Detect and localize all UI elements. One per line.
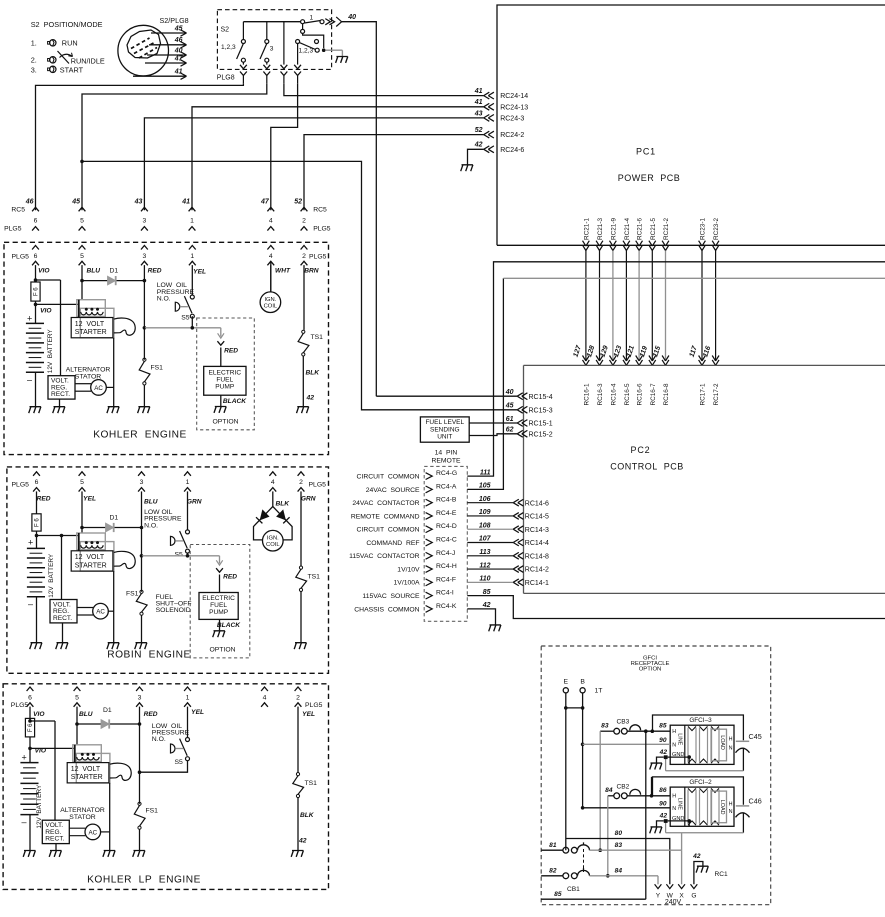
- svg-text:D1: D1: [110, 515, 119, 522]
- svg-text:RC4-J: RC4-J: [436, 550, 455, 557]
- svg-text:RC4-H: RC4-H: [436, 563, 457, 570]
- svg-text:42: 42: [659, 749, 668, 756]
- svg-text:2: 2: [302, 253, 306, 260]
- svg-text:RC4-I: RC4-I: [436, 590, 454, 597]
- wire 62 to RC15-2: [469, 434, 517, 436]
- key icon START: [48, 66, 56, 72]
- Kohler wire color labels: [38, 268, 319, 276]
- svg-text:84: 84: [615, 868, 623, 875]
- pin RC4-K wire 42 (CHASSIS&#160;&#160;COMMON): [354, 602, 490, 613]
- pin RC4-G wire 111 (CIRCUIT&#160;&#160;COMMON): [357, 469, 491, 480]
- svg-text:PC2: PC2: [631, 445, 651, 455]
- wire 47 from connector: [145, 55, 187, 66]
- LP PLG5 pin 6: [27, 687, 34, 721]
- Kohler PLG5 pin 4: [267, 246, 274, 293]
- svg-text:F 6: F 6: [34, 287, 40, 296]
- svg-text:RC1: RC1: [715, 871, 729, 878]
- svg-text:107: 107: [479, 536, 492, 543]
- svg-text:PLG8: PLG8: [217, 75, 235, 82]
- svg-text:RC4-K: RC4-K: [436, 603, 457, 610]
- Robin PLG5 labels: [12, 481, 327, 488]
- svg-text:84: 84: [605, 787, 613, 794]
- svg-text:240V: 240V: [665, 899, 682, 906]
- wire 113 to RC14-8: [467, 552, 549, 560]
- svg-text:TS1: TS1: [311, 334, 324, 341]
- RC5 pin 2 wire 52: [294, 199, 307, 231]
- svg-text:E: E: [564, 679, 569, 686]
- svg-text:42: 42: [659, 813, 668, 820]
- ALTERNATOR STATOR label: [60, 807, 105, 821]
- svg-text:62: 62: [506, 427, 514, 434]
- Kohler pin5 wire to solenoid: [81, 281, 83, 300]
- svg-text:PLG5: PLG5: [11, 702, 29, 709]
- wire 105 run gray: [503, 277, 885, 279]
- svg-text:5: 5: [75, 694, 79, 701]
- svg-text:RED: RED: [37, 496, 51, 503]
- svg-text:S2 POSITION/MODE: S2 POSITION/MODE: [31, 20, 103, 29]
- svg-text:RC24-2: RC24-2: [500, 132, 524, 139]
- svg-text:108: 108: [479, 522, 491, 529]
- Kohler starter ground wire: [113, 338, 115, 407]
- ground: [53, 407, 65, 413]
- svg-text:RC24-3: RC24-3: [500, 116, 524, 123]
- pin RC15-2: [506, 427, 553, 439]
- wire E column: [564, 693, 568, 850]
- svg-text:PLG5: PLG5: [12, 253, 30, 260]
- svg-text:RED: RED: [148, 268, 162, 275]
- svg-text:RC24-14: RC24-14: [500, 93, 528, 100]
- Robin wire color labels: [37, 496, 316, 508]
- svg-text:GRN: GRN: [301, 496, 316, 503]
- Robin fuel pump feed wire: [140, 554, 238, 593]
- svg-text:6: 6: [28, 694, 32, 701]
- svg-text:N.O.: N.O.: [144, 522, 158, 529]
- S2 pole 1 (1,2,3): [237, 22, 247, 69]
- wire 45 PLG8-B to RC5-5: [82, 83, 267, 210]
- LP pin3 wire to FS1: [138, 724, 142, 804]
- wire B column: [566, 693, 585, 810]
- svg-text:105: 105: [479, 483, 491, 490]
- pressure switch S5 Robin: [171, 530, 190, 559]
- terminal B: [580, 679, 602, 695]
- Robin PLG5 pin 5: [79, 472, 86, 528]
- svg-text:LINE: LINE: [676, 733, 682, 745]
- svg-text:RC24-13: RC24-13: [500, 104, 528, 111]
- svg-text:1.: 1.: [31, 38, 37, 47]
- svg-text:RC16-7: RC16-7: [650, 383, 657, 405]
- GFCI&#8211;3 ground terminal: [650, 749, 691, 770]
- svg-text:45: 45: [71, 199, 80, 206]
- svg-text:113: 113: [479, 549, 490, 556]
- diode D1 Kohler: [80, 268, 146, 286]
- 12 VOLT STARTER box: [71, 318, 113, 338]
- svg-text:GFCI–2: GFCI–2: [689, 779, 712, 786]
- VOLT REG RECT box: [48, 376, 75, 399]
- KOHLER LP ENGINE dashed box: [3, 684, 328, 890]
- svg-text:5: 5: [80, 253, 84, 260]
- Robin PLG5 pin 3: [138, 472, 145, 528]
- ground: [135, 643, 147, 649]
- terminal W: [666, 884, 673, 899]
- circuit breaker CB1 pole 1 wire 81: [541, 842, 589, 853]
- svg-text:B: B: [580, 679, 585, 686]
- svg-text:OPTION: OPTION: [209, 646, 235, 653]
- svg-text:RC14-2: RC14-2: [525, 567, 549, 574]
- svg-text:41: 41: [181, 199, 190, 206]
- svg-text:BLK: BLK: [300, 812, 315, 819]
- circuit breaker CB3 wire 83: [600, 719, 646, 734]
- PLG8 pin: [263, 72, 270, 84]
- pin RC24-3: [474, 110, 525, 122]
- pin RC15-4: [505, 389, 553, 401]
- svg-text:43: 43: [474, 110, 483, 117]
- Kohler fuel pump feed wire: [143, 326, 239, 366]
- pin RC4-I wire 85 (115VAC&#160;&#160;SOURCE): [362, 589, 490, 600]
- svg-text:RC14-5: RC14-5: [525, 514, 549, 521]
- svg-text:6: 6: [34, 218, 38, 225]
- svg-text:PC1: PC1: [636, 147, 656, 157]
- PC1 POWER PCB box: [497, 5, 885, 245]
- ground: [29, 407, 41, 413]
- wire 40 out of S2: [342, 14, 377, 396]
- LP wire color labels: [33, 709, 315, 718]
- svg-text:REMOTE: REMOTE: [431, 458, 461, 465]
- svg-text:83: 83: [615, 842, 623, 849]
- svg-text:40: 40: [347, 14, 356, 21]
- svg-text:LOAD: LOAD: [719, 735, 725, 750]
- svg-text:5: 5: [80, 218, 84, 225]
- fuse F6 Kohler: [31, 280, 40, 301]
- pin RC21-9 / RC16-4 wire 129: [600, 218, 618, 406]
- svg-text:H: H: [672, 794, 676, 800]
- svg-text:VIO: VIO: [33, 711, 45, 718]
- svg-text:RC21-6: RC21-6: [637, 218, 644, 240]
- wire 84 run gray: [590, 868, 659, 885]
- svg-text:6: 6: [35, 479, 39, 486]
- fuse F6 LP: [25, 718, 34, 737]
- svg-text:CB3: CB3: [617, 719, 630, 726]
- solenoid coil: [79, 300, 103, 318]
- GFCI RECEPTACLE OPTION dashed box: [541, 646, 771, 905]
- pin RC23-1 / RC17-1 wire 117: [689, 218, 707, 406]
- svg-text:–: –: [27, 375, 32, 385]
- solenoid coil: [75, 745, 99, 763]
- Kohler PLG5 pin 3: [141, 246, 148, 281]
- ground: [49, 851, 61, 857]
- svg-text:PUMP: PUMP: [209, 609, 229, 616]
- svg-text:–: –: [22, 817, 27, 827]
- svg-text:RC15-1: RC15-1: [529, 421, 553, 428]
- svg-text:1: 1: [190, 218, 194, 225]
- ground: [138, 407, 150, 413]
- pin RC24-14: [474, 88, 529, 100]
- ELECTRIC FUEL PUMP box Kohler: [204, 366, 246, 395]
- svg-text:RED: RED: [223, 574, 237, 581]
- connector row RC5/PLG5 labels: [4, 207, 331, 233]
- svg-text:RC23-2: RC23-2: [713, 218, 720, 240]
- Robin PLG5 pin 6: [33, 472, 40, 508]
- capacitor C45: [736, 732, 762, 753]
- svg-text:112: 112: [479, 562, 490, 569]
- svg-text:40: 40: [174, 47, 183, 54]
- svg-text:RUN/IDLE: RUN/IDLE: [71, 57, 105, 66]
- svg-text:YEL: YEL: [193, 269, 206, 276]
- resistor TS1 Robin: [294, 566, 320, 649]
- svg-text:FUEL: FUEL: [210, 602, 227, 609]
- svg-text:4: 4: [269, 253, 273, 260]
- fuse link FS1 LP: [134, 802, 158, 850]
- RC5 pin 1 wire 41: [181, 199, 195, 231]
- svg-text:RC16-1: RC16-1: [584, 383, 591, 405]
- Kohler AC to starter column wire: [106, 386, 114, 388]
- pressure switch S5: [175, 295, 194, 322]
- svg-text:RC14-3: RC14-3: [525, 527, 549, 534]
- svg-text:1,2,3: 1,2,3: [221, 44, 236, 51]
- pressure switch S5 LP: [171, 738, 190, 767]
- wire 110 to RC14-1: [467, 579, 549, 587]
- svg-text:RC21-9: RC21-9: [611, 218, 618, 240]
- starter motor drive outline: [114, 551, 135, 568]
- svg-text:1: 1: [186, 694, 190, 701]
- 12 VOLT STARTER box: [71, 551, 113, 571]
- wire 112 to RC14-2: [467, 566, 549, 574]
- svg-text:BLACK: BLACK: [217, 622, 241, 629]
- svg-text:BRN: BRN: [304, 268, 319, 275]
- svg-text:46: 46: [25, 199, 34, 206]
- svg-text:POWER PCB: POWER PCB: [618, 173, 681, 183]
- ground: [30, 643, 42, 649]
- svg-text:52: 52: [475, 127, 483, 134]
- svg-text:PLG5: PLG5: [12, 481, 30, 488]
- svg-text:N: N: [729, 809, 733, 815]
- fuse F6 Robin: [32, 508, 41, 531]
- Robin PLG5 pin 2: [298, 472, 305, 566]
- LOW OIL PRESSURE N.O. label Kohler: [157, 282, 195, 302]
- svg-text:RC5: RC5: [313, 207, 327, 214]
- switch box S2 outline: [217, 10, 332, 82]
- svg-text:F 6: F 6: [35, 518, 41, 527]
- svg-text:KOHLER ENGINE: KOHLER ENGINE: [93, 430, 187, 441]
- svg-text:RC17-1: RC17-1: [700, 383, 707, 405]
- svg-text:YEL: YEL: [302, 711, 315, 718]
- svg-text:40: 40: [505, 389, 514, 396]
- svg-text:RC14-6: RC14-6: [525, 500, 549, 507]
- svg-text:YEL: YEL: [191, 709, 204, 716]
- wire 105 RC4-A riser: [467, 278, 503, 489]
- pin RC4-B wire 106 (24VAC&#160;&#160;CONTACTOR): [352, 496, 490, 507]
- wire 84 riser gray: [607, 796, 609, 876]
- Robin PLG5 pin 1: [184, 472, 191, 530]
- svg-text:1V/10V: 1V/10V: [397, 566, 420, 573]
- LP VR ground wire: [55, 844, 57, 851]
- svg-text:FS1: FS1: [126, 591, 139, 598]
- svg-text:BLU: BLU: [86, 268, 100, 275]
- Robin S5 lower wire: [187, 553, 189, 556]
- pin RC15-3: [505, 403, 553, 415]
- svg-text:S2/PLG8: S2/PLG8: [160, 16, 189, 25]
- pin RC4-J wire 113 (115VAC&#160;&#160;CONTACTOR): [349, 549, 491, 560]
- diode D1 Robin: [80, 515, 143, 533]
- svg-text:G: G: [691, 892, 696, 899]
- svg-text:12V BATTERY: 12V BATTERY: [47, 329, 54, 374]
- svg-text:CIRCUIT COMMON: CIRCUIT COMMON: [357, 474, 420, 481]
- wire 45 from connector: [151, 25, 187, 36]
- Robin AC to starter column wire: [108, 610, 113, 612]
- pin RC21-5 / RC16-7 wire 119: [639, 218, 657, 406]
- svg-text:115VAC SOURCE: 115VAC SOURCE: [362, 593, 420, 600]
- svg-text:1V/100A: 1V/100A: [394, 580, 421, 587]
- svg-text:RC4-G: RC4-G: [436, 470, 457, 477]
- LP AC to starter column wire: [101, 831, 110, 833]
- pin RC4-E wire 109 (REMOTE&#160;&#160;COMMAND): [351, 509, 491, 520]
- svg-text:RC21-3: RC21-3: [597, 218, 604, 240]
- Kohler S5 lower wire: [191, 316, 193, 328]
- wire 111 RC4-G to PC1 area: [467, 262, 885, 476]
- svg-text:PLG5: PLG5: [4, 226, 22, 233]
- wire 52 RC5-2 to RC24-2: [304, 135, 484, 211]
- pin RC24-13: [474, 99, 529, 111]
- VOLT REG RECT box: [42, 820, 69, 843]
- wire 107 to RC14-4: [467, 539, 549, 547]
- svg-text:VIO: VIO: [40, 308, 52, 315]
- svg-text:83: 83: [601, 723, 609, 730]
- starter motor drive outline: [114, 318, 135, 335]
- key icon RUN: [48, 40, 56, 46]
- svg-text:RC14-4: RC14-4: [525, 540, 549, 547]
- Robin PLG5 pin 4: [269, 472, 276, 507]
- svg-text:RECT.: RECT.: [53, 615, 72, 622]
- svg-text:UNIT: UNIT: [437, 434, 452, 441]
- svg-text:42: 42: [298, 838, 307, 845]
- svg-text:LINE: LINE: [676, 798, 682, 810]
- svg-text:RC21-2: RC21-2: [663, 218, 670, 240]
- svg-text:START: START: [60, 65, 84, 74]
- svg-text:C46: C46: [749, 796, 762, 805]
- svg-text:42: 42: [305, 395, 314, 402]
- PC2 CONTROL PCB box: [524, 365, 885, 593]
- svg-text:PLG5: PLG5: [305, 702, 323, 709]
- 14 PIN REMOTE connector box: [424, 450, 467, 622]
- svg-text:OPTION: OPTION: [639, 667, 662, 673]
- Kohler PLG5 pin 2: [301, 246, 308, 330]
- LOW OIL PRESSURE N.O. label LP: [152, 723, 190, 743]
- svg-text:BLK: BLK: [305, 370, 320, 377]
- svg-text:N: N: [729, 746, 733, 752]
- LP PLG5 pin 3: [136, 687, 143, 724]
- ground: [23, 851, 35, 857]
- svg-text:RC21-1: RC21-1: [584, 218, 591, 240]
- svg-text:ALTERNATOR: ALTERNATOR: [60, 807, 105, 814]
- svg-text:BLK: BLK: [275, 501, 290, 508]
- svg-text:1: 1: [186, 479, 190, 486]
- ROBIN ENGINE dashed box: [7, 467, 329, 673]
- svg-text:ELECTRIC: ELECTRIC: [202, 595, 235, 602]
- svg-text:2: 2: [302, 218, 306, 225]
- wire 90 into GFCI-2: [583, 801, 671, 808]
- svg-text:VIO: VIO: [38, 268, 50, 275]
- svg-text:CONTROL PCB: CONTROL PCB: [610, 462, 684, 472]
- svg-text:BLACK: BLACK: [223, 398, 247, 405]
- S2 selector contacts 1: [301, 15, 342, 27]
- svg-text:N.O.: N.O.: [157, 296, 171, 303]
- svg-text:SOLENOID: SOLENOID: [156, 607, 191, 614]
- svg-text:ELECTRIC: ELECTRIC: [208, 369, 241, 376]
- svg-text:45: 45: [505, 403, 514, 410]
- wire 106 to RC14-6: [467, 499, 549, 507]
- svg-text:86: 86: [659, 787, 667, 794]
- svg-text:85: 85: [554, 891, 562, 898]
- svg-text:3.: 3.: [31, 65, 37, 74]
- svg-text:RC4-F: RC4-F: [436, 576, 456, 583]
- svg-text:FS1: FS1: [151, 365, 164, 372]
- Kohler PLG5 pin 6: [32, 246, 39, 281]
- svg-text:RECT.: RECT.: [45, 836, 64, 843]
- ground: [107, 407, 119, 413]
- svg-text:52: 52: [294, 199, 302, 206]
- svg-text:RC4-A: RC4-A: [436, 483, 457, 490]
- key icon RUN/IDLE: [48, 51, 73, 64]
- svg-text:1: 1: [310, 15, 314, 22]
- terminal E: [563, 679, 568, 693]
- wire 41 PLG8-C to RC24-14: [284, 83, 484, 95]
- GFCI&#8211;2 outer enclosure box: [653, 777, 744, 833]
- wire 41 from connector: [133, 69, 187, 80]
- svg-text:RC16-6: RC16-6: [637, 383, 644, 405]
- svg-text:RC14-1: RC14-1: [525, 580, 549, 587]
- LP PLG5 pin 4: [261, 687, 268, 707]
- pin RC4-F wire 110 (1V/100A): [394, 576, 491, 587]
- svg-text:VIO: VIO: [35, 748, 47, 755]
- svg-text:42: 42: [482, 602, 491, 609]
- pin RC4-C wire 107 (COMMAND&#160;&#160;REF): [366, 536, 491, 547]
- ground: [103, 851, 115, 857]
- svg-text:61: 61: [506, 416, 514, 423]
- battery 12V Kohler: [26, 314, 54, 407]
- wire 83 riser gray: [599, 731, 601, 850]
- starter solenoid housing: [77, 533, 114, 571]
- OPTION dashed box Kohler: [197, 318, 255, 430]
- svg-text:COMMAND REF: COMMAND REF: [366, 540, 419, 547]
- RC5 pin 6 wire 46: [25, 199, 39, 231]
- svg-text:6: 6: [34, 253, 38, 260]
- LOW OIL PRESSURE N.O. label Robin: [144, 509, 182, 529]
- svg-text:85: 85: [483, 589, 491, 596]
- wire 42 RC4-K to ground: [467, 609, 501, 631]
- circuit breaker CB1 pole 2 wire 82: [541, 868, 589, 893]
- svg-text:STARTER: STARTER: [71, 774, 103, 781]
- wire 45 branch to RC15-3: [80, 160, 517, 410]
- wire 85 into GFCI-3: [644, 723, 670, 733]
- wire 43 RC5-3 to RC24-3: [144, 118, 483, 210]
- terminal Y: [655, 884, 662, 899]
- battery 12V LP: [20, 752, 43, 850]
- svg-text:106: 106: [479, 496, 491, 503]
- svg-text:ROBIN ENGINE: ROBIN ENGINE: [107, 650, 190, 661]
- svg-text:CB2: CB2: [617, 783, 630, 790]
- wire 85 RC4-I run: [467, 596, 885, 619]
- Kohler PLG5 pin 1: [189, 246, 196, 296]
- svg-text:12 VOLT: 12 VOLT: [71, 766, 101, 773]
- ignition coil Kohler: [260, 261, 281, 313]
- svg-text:47: 47: [174, 55, 184, 62]
- svg-text:AC: AC: [96, 609, 105, 616]
- Kohler VR ground wire: [59, 399, 61, 407]
- GFCI&#8211;3 LOAD side: [712, 729, 733, 761]
- svg-text:3: 3: [140, 479, 144, 486]
- svg-text:RECT.: RECT.: [51, 391, 70, 398]
- svg-text:RC15-3: RC15-3: [529, 407, 553, 414]
- svg-text:SENDING: SENDING: [430, 426, 460, 433]
